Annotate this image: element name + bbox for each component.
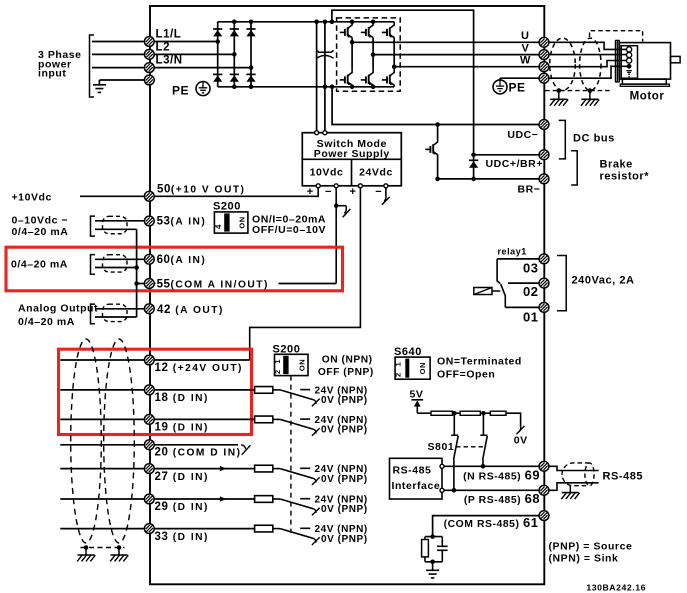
RS-485 interface box <box>390 458 443 499</box>
svg-text:42 (A OUT): 42 (A OUT) <box>157 304 224 316</box>
PE earth symbol <box>196 82 210 96</box>
IGBT Q4 bottom (U low side) <box>351 42 353 69</box>
motor cable shield ellipse 1 <box>550 38 576 90</box>
svg-text:53(A IN): 53(A IN) <box>157 215 207 227</box>
motor flange <box>615 40 617 82</box>
svg-text:ON: ON <box>418 362 427 374</box>
motor shaft <box>671 56 681 62</box>
svg-text:L1/L: L1/L <box>156 29 182 41</box>
diode D6 bottom <box>246 74 255 81</box>
svg-text:ON: ON <box>238 216 247 228</box>
S801 switch pole P <box>482 413 484 435</box>
break hook 0V <box>519 427 521 432</box>
analog source 53 <box>91 216 96 236</box>
IGBT Q2 top (V high side) <box>361 22 373 38</box>
IGBT Q6 bottom (W low side) <box>393 67 395 70</box>
svg-text:33 (D IN): 33 (D IN) <box>155 531 209 543</box>
row 33 D IN <box>60 528 144 530</box>
wire 53 minus to COM <box>95 228 137 230</box>
svg-text:OFF=Open: OFF=Open <box>437 368 495 380</box>
motor base <box>622 79 666 84</box>
analog source 42 <box>91 304 96 324</box>
svg-text:PE: PE <box>509 81 526 95</box>
svg-text:10Vdc: 10Vdc <box>310 167 344 179</box>
junction BR- diode <box>471 177 476 182</box>
switch S200 D IN <box>275 354 309 375</box>
shield drain junction 1 <box>557 88 562 93</box>
PE output symbol <box>493 80 507 94</box>
wire DC+ up and over to UDC+ <box>332 10 474 155</box>
terminal 53 <box>144 216 154 226</box>
svg-text:0V: 0V <box>514 434 528 446</box>
wire phase W to terminal <box>394 66 539 68</box>
SMPS box Switch Mode Power Supply <box>302 133 401 186</box>
wire/terminal 12 +24V OUT <box>60 359 144 361</box>
svg-text:L3/N: L3/N <box>156 54 183 66</box>
svg-text:0V (PNP): 0V (PNP) <box>321 504 368 515</box>
wire 42 minus to COM <box>95 316 137 318</box>
svg-text:+10Vdc: +10Vdc <box>12 192 52 204</box>
svg-text:input: input <box>38 68 66 80</box>
relay armature <box>501 284 506 307</box>
svg-text:V: V <box>522 43 530 55</box>
S200 control dashed line <box>290 376 292 533</box>
ground control shield B <box>118 548 120 556</box>
wire BR- line <box>438 178 540 180</box>
terminal 03 <box>497 258 539 260</box>
svg-text:(PNP) = Source: (PNP) = Source <box>549 540 633 552</box>
terminal V <box>539 50 549 60</box>
ground control shield A <box>85 548 87 556</box>
interface pin 68 <box>440 488 444 492</box>
svg-text:18 (D IN): 18 (D IN) <box>155 392 209 404</box>
row 27 D IN <box>60 468 144 470</box>
ground shield 2 <box>589 91 591 100</box>
wire phase U to terminal <box>352 41 539 43</box>
terminal 61 <box>539 511 549 521</box>
svg-text:0V (PNP): 0V (PNP) <box>321 534 368 545</box>
svg-text:Interface: Interface <box>392 480 441 492</box>
svg-text:19 (D IN): 19 (D IN) <box>155 422 209 434</box>
RS-485 port wires <box>549 466 599 470</box>
input bracket <box>90 35 95 97</box>
motor terminals <box>627 47 632 52</box>
wire phase V to terminal <box>373 54 539 56</box>
motor cable shield ellipse 2 <box>580 38 601 90</box>
svg-text:+: + <box>350 186 357 198</box>
wire L3 to rectifier <box>154 67 251 69</box>
inverter dashed enclosure <box>337 18 401 91</box>
svg-text:0/4–20 mA: 0/4–20 mA <box>18 316 75 328</box>
shield drain A <box>84 545 89 550</box>
brake diode D7 <box>473 155 475 179</box>
relay fixed contact 03 <box>497 259 500 284</box>
relay coil <box>474 288 492 295</box>
terminal 69 <box>539 461 549 471</box>
wire W to motor <box>549 61 627 67</box>
resistor RC-R <box>422 540 429 557</box>
wire 5V to divider <box>417 412 431 414</box>
svg-text:55(COM A IN/OUT): 55(COM A IN/OUT) <box>157 279 269 291</box>
resistor R2 <box>460 411 480 415</box>
junction bus leg 3 <box>249 20 254 25</box>
terminal PE output <box>539 73 549 83</box>
wire L2 <box>92 53 145 55</box>
junction divider N <box>452 411 457 416</box>
junction bottom bus rail2 <box>323 85 328 90</box>
terminal 01 <box>539 303 549 313</box>
svg-text:L2: L2 <box>156 42 171 54</box>
shield drain junction 2 <box>588 88 593 93</box>
motor body <box>619 43 670 80</box>
wire R3 to 0V <box>506 413 521 426</box>
junction 69 pole P <box>481 464 486 469</box>
row 20 COM D IN <box>60 444 144 446</box>
wire L1 to rectifier <box>154 41 218 43</box>
wire L1 <box>92 41 145 43</box>
svg-text:ON: ON <box>297 359 306 371</box>
junction brake IGBT collector <box>435 122 440 127</box>
svg-text:Brake: Brake <box>600 159 633 171</box>
svg-text:DC bus: DC bus <box>573 133 615 145</box>
wire COM analog vertical <box>136 229 138 317</box>
resistor R1 <box>431 411 452 415</box>
wire relay common 01 <box>505 306 539 308</box>
svg-text:2: 2 <box>273 369 282 374</box>
svg-text:W: W <box>520 54 531 66</box>
node phase V <box>371 52 376 57</box>
motor terminal box <box>621 46 637 78</box>
terminal 50 <box>144 191 154 201</box>
svg-text:60(A IN): 60(A IN) <box>157 254 207 266</box>
wire 68 P RS-485 <box>444 489 539 491</box>
row 29 D IN <box>60 498 144 500</box>
diode D3 top <box>246 29 255 36</box>
ground RS-485 shield <box>569 486 571 493</box>
svg-text:PE: PE <box>172 84 189 98</box>
rectifier diode leg 1 vertical <box>217 22 219 87</box>
DC bus capacitor <box>317 50 334 52</box>
interface pin 69 <box>440 464 444 468</box>
wire PE to motor <box>549 66 627 78</box>
wire UDC+ line <box>474 154 540 156</box>
svg-text:01: 01 <box>523 310 539 325</box>
svg-text:5V: 5V <box>410 389 424 401</box>
shield to motor frame dashed <box>590 31 643 42</box>
junction top bus Q2 <box>371 20 376 25</box>
RS-485 port shield <box>562 463 590 486</box>
junction top bus rail2 <box>323 20 328 25</box>
row 18 D IN <box>60 389 144 391</box>
svg-text:−: − <box>325 186 332 198</box>
control shield bottom dashed <box>81 547 125 549</box>
control cable shield ellipse 1 <box>71 339 102 543</box>
shield bottom dashed <box>545 90 610 92</box>
wire +10V to terminal 50 <box>80 188 318 197</box>
junction UDC+ diode <box>471 153 476 158</box>
SMPS output pins <box>316 184 320 188</box>
rectifier diode leg 3 vertical <box>250 22 252 87</box>
svg-text:50(+10 V OUT): 50(+10 V OUT) <box>157 184 245 196</box>
junction BR- emitter <box>435 177 440 182</box>
junction COM 55 <box>134 281 139 286</box>
svg-text:240Vac, 2A: 240Vac, 2A <box>572 275 635 287</box>
svg-text:ON (NPN): ON (NPN) <box>322 355 373 366</box>
wire -10V common drop <box>335 188 337 284</box>
junction COM 60 <box>134 265 139 270</box>
diode D5 bottom <box>230 74 239 81</box>
wire PE input <box>99 79 144 81</box>
terminal L2 <box>144 50 154 60</box>
drive enclosure outline <box>150 6 544 584</box>
S801 switch pole N <box>453 413 455 435</box>
svg-text:03: 03 <box>523 261 539 276</box>
switch S200 A53 <box>214 212 248 233</box>
svg-text:0/4–20 mA: 0/4–20 mA <box>12 226 69 238</box>
svg-text:UDC+/BR+: UDC+/BR+ <box>486 158 544 170</box>
svg-text:0–10Vdc −: 0–10Vdc − <box>12 214 69 226</box>
terminal UDC+/BR+ <box>539 150 549 160</box>
DC rail 1 (to SMPS) <box>316 22 318 133</box>
rectifier top bus (DC+) <box>218 21 395 23</box>
junction phase L1 to leg <box>215 39 220 44</box>
motor PE stud <box>627 64 632 69</box>
terminal 02 <box>539 278 549 288</box>
switch S640 <box>395 357 430 379</box>
control cable shield ellipse 2 <box>104 339 135 543</box>
junction bottom bus Q4 <box>350 85 355 90</box>
svg-text:OFF/U=0–10V: OFF/U=0–10V <box>252 224 326 236</box>
svg-text:0V (PNP): 0V (PNP) <box>321 425 368 436</box>
svg-text:BR−: BR− <box>518 184 541 196</box>
analog source 60 <box>91 255 96 275</box>
svg-text:ON=Terminated: ON=Terminated <box>437 355 522 367</box>
terminal BR- <box>539 174 549 184</box>
wire PE to terminal <box>499 78 501 80</box>
wire 60 minus to COM <box>95 267 137 269</box>
wire 61 COM RS-485 <box>433 516 540 537</box>
IGBT Q5 bottom (V low side) <box>372 55 374 70</box>
svg-text:Analog Output: Analog Output <box>18 303 98 315</box>
svg-text:Motor: Motor <box>630 91 665 103</box>
svg-text:(NPN) = Sink: (NPN) = Sink <box>549 552 619 564</box>
svg-text:Power Supply: Power Supply <box>314 148 390 160</box>
svg-text:0V (PNP): 0V (PNP) <box>321 395 368 406</box>
highlight box terminals 12/18/19 <box>59 349 252 434</box>
wire -24V stub <box>385 188 387 197</box>
junction phase L2 to leg <box>232 52 237 57</box>
svg-text:S640: S640 <box>394 346 422 358</box>
wire R1-R2 <box>452 412 460 414</box>
terminal PE <box>144 75 154 85</box>
ground RC <box>426 570 439 578</box>
svg-text:S801: S801 <box>428 441 455 453</box>
highlight box terminals 60/55 <box>6 247 343 291</box>
svg-text:0V (PNP): 0V (PNP) <box>321 474 368 485</box>
svg-text:S200: S200 <box>213 201 241 213</box>
svg-text:U: U <box>521 30 530 42</box>
terminal W <box>539 62 549 72</box>
svg-text:24Vdc: 24Vdc <box>359 167 393 179</box>
svg-text:RS-485: RS-485 <box>603 471 644 483</box>
wire L3 <box>92 67 145 69</box>
Brake resistor bracket <box>571 151 577 185</box>
break hook -10V <box>336 205 346 207</box>
rectifier diode leg 2 vertical <box>233 22 235 87</box>
relay bracket 240Vac <box>557 256 566 311</box>
IGBT Q1 top (U high side) <box>340 22 352 38</box>
diode D2 top <box>230 29 239 36</box>
wire R2-R3 <box>480 412 490 414</box>
wire 69 N RS-485 <box>444 465 539 467</box>
junction bottom bus UDC- drop <box>330 85 335 90</box>
break hook -24V <box>384 197 386 201</box>
svg-text:130BA242.16: 130BA242.16 <box>586 582 646 592</box>
svg-text:12 (+24V OUT): 12 (+24V OUT) <box>155 362 243 374</box>
wire 55 COM line <box>137 283 337 285</box>
wire relay NC 02 <box>508 282 539 284</box>
svg-text:20 (COM D IN): 20 (COM D IN) <box>155 447 242 459</box>
wire +24V feed <box>250 188 361 360</box>
junction top bus rail1 <box>314 20 319 25</box>
svg-text:−: − <box>375 186 382 198</box>
row 19 D IN <box>60 418 144 420</box>
RC termination network <box>430 534 435 539</box>
label 55 (COM A IN/OUT) <box>156 278 279 290</box>
terminal L3/N <box>144 63 154 73</box>
shield drain B <box>117 545 122 550</box>
rectifier bottom bus (DC-) <box>218 86 395 88</box>
DC rail 2 (to SMPS) <box>324 22 326 133</box>
S801 link dashed <box>456 446 485 448</box>
wire L2 to rectifier <box>154 53 234 55</box>
junction bottom bus Q5 <box>371 85 376 90</box>
svg-text:2: 2 <box>393 372 402 377</box>
terminal UDC- <box>539 120 549 130</box>
svg-text:relay1: relay1 <box>498 247 527 257</box>
node phase W <box>392 64 397 69</box>
junction phase L3 to leg <box>249 65 254 70</box>
wire U to motor <box>549 42 627 49</box>
diode D4 bottom <box>213 74 222 81</box>
junction bus leg 2 <box>232 20 237 25</box>
brake IGBT Q7 <box>437 125 439 139</box>
DC bus bracket <box>559 120 566 158</box>
ground input PE <box>93 85 106 93</box>
svg-text:1: 1 <box>393 362 402 367</box>
svg-text:27 (D IN): 27 (D IN) <box>155 471 209 483</box>
terminal L1/L <box>144 37 154 47</box>
svg-text:0/4–20 mA: 0/4–20 mA <box>11 258 68 270</box>
junction divider P <box>481 411 486 416</box>
IGBT Q3 top (W high side) <box>382 22 394 38</box>
junction top bus riser <box>330 20 335 25</box>
svg-text:29 (D IN): 29 (D IN) <box>155 501 209 513</box>
wire V to motor <box>549 54 627 56</box>
svg-text:resistor*: resistor* <box>600 171 650 183</box>
svg-text:1: 1 <box>273 359 282 364</box>
terminal 42 <box>144 304 154 314</box>
svg-text:UDC−: UDC− <box>507 129 538 141</box>
terminal 55 <box>144 279 154 289</box>
junction -10V tap <box>334 203 339 208</box>
SMPS input pins <box>315 131 319 135</box>
terminal 68 <box>539 485 549 495</box>
motor internal ground <box>626 71 632 77</box>
terminal U <box>539 37 549 47</box>
svg-text:OFF (PNP): OFF (PNP) <box>318 367 374 378</box>
svg-text:4: 4 <box>214 224 223 229</box>
terminal 60 <box>144 254 154 264</box>
junction top bus Q1 <box>350 20 355 25</box>
svg-text:02: 02 <box>523 284 539 299</box>
svg-text:RS-485: RS-485 <box>393 464 432 476</box>
node phase U <box>350 40 355 45</box>
wire DC- to UDC- terminal <box>332 87 539 125</box>
diode D1 top <box>213 29 222 36</box>
junction 68 pole N <box>452 488 457 493</box>
capacitor RC-C <box>441 537 443 547</box>
ground shield 1 <box>558 91 560 100</box>
resistor R3 <box>490 411 506 415</box>
